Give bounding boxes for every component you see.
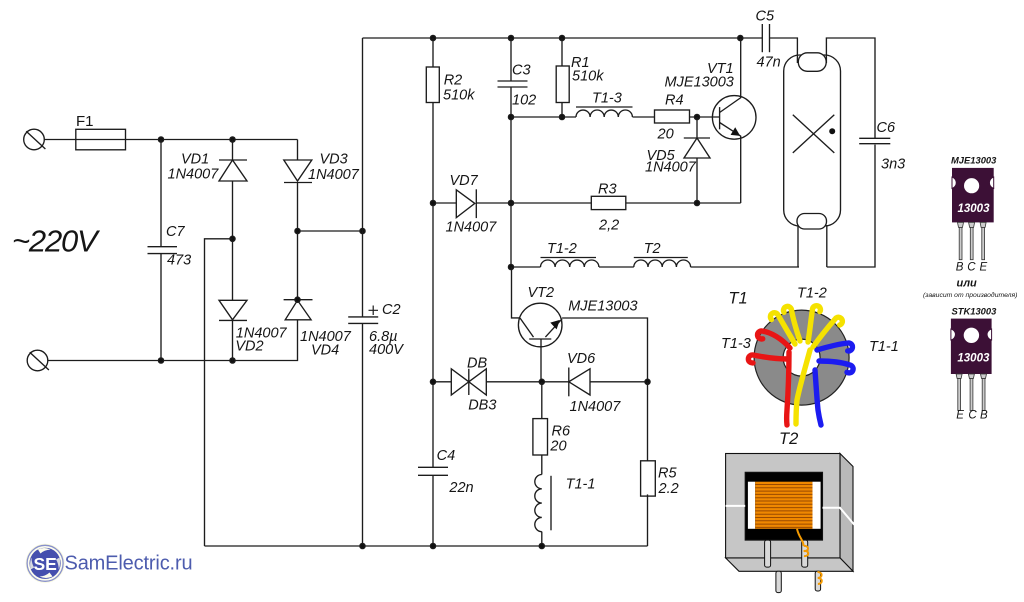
node DB left xyxy=(430,379,435,384)
svg-text:SamElectric.ru: SamElectric.ru xyxy=(65,553,193,575)
node VD5 top junction xyxy=(694,114,699,119)
svg-text:T1-1: T1-1 xyxy=(869,339,899,355)
resistor R5 xyxy=(641,461,656,496)
svg-text:C: C xyxy=(967,261,976,273)
svg-text:C5: C5 xyxy=(756,9,775,25)
package MJE13003 body xyxy=(952,168,994,223)
svg-text:VD6: VD6 xyxy=(567,351,596,367)
wire top rail xyxy=(363,37,763,39)
wire base row y117 xyxy=(511,116,720,118)
transformer T2 picture xyxy=(726,454,853,572)
diode VD5 xyxy=(684,138,710,158)
svg-text:B: B xyxy=(980,410,988,422)
wire R2 rail down xyxy=(432,103,434,547)
wire C7 upper xyxy=(160,140,162,247)
svg-text:C3: C3 xyxy=(512,63,531,79)
svg-text:510k: 510k xyxy=(572,69,604,85)
transistor VT2 xyxy=(518,303,562,347)
svg-text:3n3: 3n3 xyxy=(881,157,905,173)
capacitor C4 xyxy=(418,467,448,475)
node R1 top xyxy=(559,35,564,40)
svg-text:DB: DB xyxy=(467,356,487,372)
wire VT2 base down xyxy=(540,339,542,382)
svg-text:R3: R3 xyxy=(598,182,617,198)
wire T1-1 to bottom rail xyxy=(541,532,543,546)
svg-text:R6: R6 xyxy=(552,423,571,439)
svg-text:1N4007: 1N4007 xyxy=(446,220,498,236)
wire neutral to VD4 corner xyxy=(48,320,298,361)
toroid winding T1-3 (red) xyxy=(748,331,790,425)
wire bottom rail xyxy=(205,545,648,547)
node VD4 top junction xyxy=(295,297,300,302)
svg-text:47n: 47n xyxy=(757,54,781,70)
node DC-plus junction xyxy=(295,228,300,233)
node C3 bottom / base row xyxy=(508,114,513,119)
wire C5 to lamp top xyxy=(770,38,798,63)
toroid winding T1-1 (blue) xyxy=(815,343,853,425)
svg-text:1N4007: 1N4007 xyxy=(168,167,220,183)
svg-text:1N4007: 1N4007 xyxy=(570,399,622,415)
resistor R3 xyxy=(591,196,626,209)
svg-text:20: 20 xyxy=(657,127,674,143)
node C3 top xyxy=(508,35,513,40)
svg-text:T1-3: T1-3 xyxy=(592,91,622,107)
node C7 bottom junction xyxy=(158,358,163,363)
inductor T1-1 xyxy=(535,475,551,532)
node VT2 emitter junction xyxy=(539,379,544,384)
diode VD1 xyxy=(219,160,247,181)
svg-text:T1-2: T1-2 xyxy=(547,241,577,257)
wire lamp bottom legs xyxy=(798,225,827,267)
svg-text:102: 102 xyxy=(512,93,536,109)
T2 winding stripes xyxy=(755,485,812,528)
terminal X2 (neutral input) xyxy=(27,350,49,371)
svg-text:VD1: VD1 xyxy=(181,152,209,168)
svg-text:T1: T1 xyxy=(728,289,747,307)
svg-text:T1-1: T1-1 xyxy=(566,477,596,493)
svg-text:22n: 22n xyxy=(448,480,473,496)
resistor R4 xyxy=(655,110,690,123)
svg-text:T2: T2 xyxy=(644,241,661,257)
node VD5 bottom junction xyxy=(694,200,699,205)
node VT2 base junction xyxy=(508,264,513,269)
node bottom C4 xyxy=(430,543,435,548)
svg-text:C: C xyxy=(968,410,977,422)
svg-text:C7: C7 xyxy=(166,224,185,240)
wire VT1 emitter down xyxy=(740,136,742,203)
node R2 top xyxy=(430,35,435,40)
wire VT2 emitter right xyxy=(562,318,647,382)
T2 core gap lines (white) xyxy=(726,506,856,526)
wire lamp top right to C6 rail xyxy=(826,38,875,138)
lamp tube EL1 xyxy=(784,55,841,226)
svg-text:STK13003: STK13003 xyxy=(952,305,998,316)
wire VD3 column xyxy=(297,140,299,300)
wire DB row xyxy=(433,381,648,383)
wire C2 rail upper xyxy=(362,38,364,317)
svg-text:T1-2: T1-2 xyxy=(797,285,827,301)
svg-text:DB3: DB3 xyxy=(468,398,496,414)
capacitor C3 xyxy=(498,81,528,87)
lamp bottom electrode xyxy=(797,214,827,230)
svg-text:C2: C2 xyxy=(382,302,401,318)
svg-text:VD3: VD3 xyxy=(320,152,348,168)
diode VD4 xyxy=(284,300,313,320)
svg-text:MJE13003: MJE13003 xyxy=(951,154,997,165)
svg-text:SE: SE xyxy=(34,554,57,574)
inductor T1-2 xyxy=(541,258,599,268)
resistor R1 xyxy=(556,66,569,103)
node bottom T1-1 xyxy=(539,543,544,548)
wire VT2 collector from node xyxy=(512,267,521,318)
diode VD6 xyxy=(569,368,590,397)
wire VD5 lower stub xyxy=(696,158,698,203)
logo SE emblem xyxy=(26,544,65,583)
node R3 row left xyxy=(430,200,435,205)
diode VD7 xyxy=(456,189,476,218)
svg-text:E: E xyxy=(956,410,964,422)
wire C2 rail lower xyxy=(362,323,364,546)
svg-text:или: или xyxy=(957,277,978,289)
svg-text:1N4007: 1N4007 xyxy=(645,159,697,175)
inductor T1-3 xyxy=(576,107,633,117)
svg-text:510k: 510k xyxy=(443,88,475,104)
svg-text:C4: C4 xyxy=(437,448,456,464)
node VD1 top junction xyxy=(230,137,235,142)
svg-text:R4: R4 xyxy=(665,93,684,109)
wire R1 stub xyxy=(561,38,563,117)
svg-text:VD7: VD7 xyxy=(450,173,479,189)
svg-text:2.2: 2.2 xyxy=(658,481,679,497)
node DC-minus junction xyxy=(230,236,235,241)
wire R5 bottom xyxy=(647,494,649,546)
toroid winding T1-2 (yellow) xyxy=(770,306,842,424)
wire VD1 column xyxy=(232,140,234,361)
svg-text:R2: R2 xyxy=(444,73,463,89)
svg-text:E: E xyxy=(980,261,988,273)
svg-text:20: 20 xyxy=(549,439,566,455)
svg-text:T1-3: T1-3 xyxy=(721,336,751,352)
wire VD5 upper stub xyxy=(696,117,698,138)
node bottom C2 xyxy=(360,543,365,548)
fuse F1 xyxy=(76,129,126,150)
node R5 top junction xyxy=(645,379,650,384)
capacitor C2 (electrolytic) xyxy=(348,306,378,324)
node VD2 bottom junction xyxy=(230,358,235,363)
wire R3 row xyxy=(433,202,741,204)
wire VT1 collector up xyxy=(740,38,742,98)
wire DC-minus to left rail xyxy=(205,239,233,546)
svg-text:VD2: VD2 xyxy=(235,339,263,355)
wire lamp bottom row xyxy=(541,145,876,267)
capacitor C6 xyxy=(859,138,890,143)
node top-left junction C7 xyxy=(158,137,163,142)
node R1 bottom xyxy=(559,114,564,119)
svg-text:1N4007: 1N4007 xyxy=(308,167,360,183)
svg-text:VD4: VD4 xyxy=(311,343,339,359)
wire C3 column xyxy=(511,38,541,267)
svg-text:T2: T2 xyxy=(779,430,798,448)
svg-text:VT2: VT2 xyxy=(528,285,555,301)
node VT1 collector top xyxy=(738,35,743,40)
wire R6 stub xyxy=(541,382,543,419)
svg-text:MJE13003: MJE13003 xyxy=(665,75,734,91)
wire terminal to fuse xyxy=(44,139,76,141)
node C2 rail junction xyxy=(360,228,365,233)
package STK13003 body xyxy=(951,319,992,374)
resistor R6 xyxy=(533,419,548,455)
svg-text:2,2: 2,2 xyxy=(598,218,619,234)
svg-text:B: B xyxy=(956,261,964,273)
svg-text:~220V: ~220V xyxy=(12,224,101,259)
svg-text:MJE13003: MJE13003 xyxy=(568,299,637,315)
toroid T1 core xyxy=(754,310,849,405)
capacitor C7 xyxy=(148,247,178,254)
wire R2 top stub xyxy=(432,38,434,67)
package MJE13003 legs xyxy=(958,222,987,259)
diac DB xyxy=(451,369,486,395)
svg-text:(зависит от производителя): (зависит от производителя) xyxy=(923,291,1017,299)
svg-text:13003: 13003 xyxy=(957,353,990,365)
svg-text:F1: F1 xyxy=(76,113,94,130)
resistor R2 xyxy=(426,67,439,103)
lamp top electrode xyxy=(798,53,826,72)
svg-text:R5: R5 xyxy=(658,466,677,482)
capacitor C5 xyxy=(762,24,769,52)
wire C7 lower xyxy=(160,254,162,361)
T2 lead-out wire (orange) xyxy=(797,529,822,584)
svg-text:13003: 13003 xyxy=(958,203,991,215)
transistor VT1 xyxy=(712,96,756,140)
terminal X1 (line input) xyxy=(24,129,46,150)
diode VD3 xyxy=(284,160,312,183)
svg-text:C6: C6 xyxy=(877,120,896,136)
wire R5 stub xyxy=(647,382,649,461)
package STK13003 legs xyxy=(956,374,986,411)
wire DC-plus to C2 rail xyxy=(298,230,363,232)
inductor T2 xyxy=(634,258,691,268)
svg-text:473: 473 xyxy=(167,253,191,269)
node VD7 right junction xyxy=(508,200,513,205)
wire R6 to T1-1 xyxy=(541,455,543,475)
T2 pins xyxy=(765,540,821,593)
wire fuse to VD3 top corner xyxy=(126,139,298,141)
diode VD2 xyxy=(219,300,247,320)
svg-text:400V: 400V xyxy=(369,342,404,358)
